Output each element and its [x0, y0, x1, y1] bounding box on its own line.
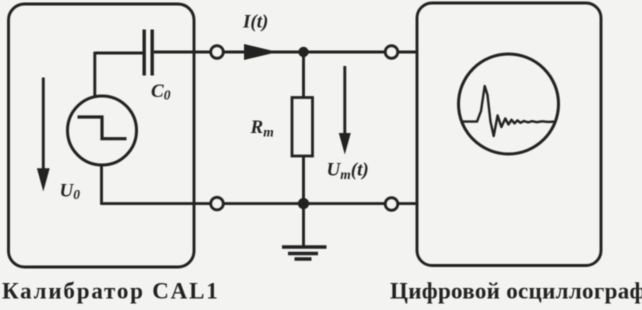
- svg-text:I(t): I(t): [242, 12, 268, 33]
- svg-text:Цифровой осциллограф: Цифровой осциллограф: [390, 278, 642, 303]
- svg-text:Калибратор CAL1: Калибратор CAL1: [2, 278, 220, 303]
